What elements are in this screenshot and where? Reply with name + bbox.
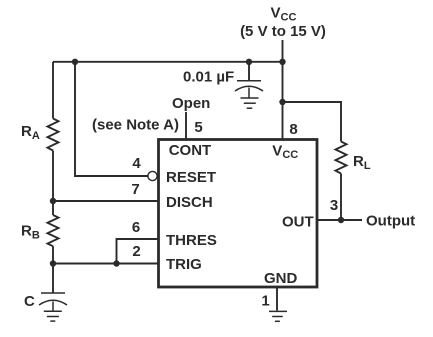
svg-text:Output: Output (366, 213, 415, 230)
node junction dot DISCH (50, 198, 56, 204)
svg-text:(see Note A): (see Note A) (92, 117, 179, 134)
wire RA to DISCH node (52, 151, 54, 216)
svg-text:C: C (24, 293, 35, 310)
wire left rail upper (RA branch) (52, 62, 54, 119)
wire 0.01uF branch (248, 62, 250, 80)
svg-text:Open: Open (172, 95, 210, 112)
svg-text:6: 6 (132, 219, 140, 236)
wire RL branch from VCC node (283, 102, 342, 142)
node junction dot TRIG left (50, 260, 56, 266)
wire THRES branch pin 6 (117, 239, 159, 264)
svg-text:DISCH: DISCH (166, 194, 213, 211)
svg-text:4: 4 (132, 155, 141, 172)
svg-text:3: 3 (330, 197, 338, 214)
svg-text:5: 5 (194, 119, 202, 136)
svg-text:CONT: CONT (169, 142, 212, 159)
wire RL to OUT node (340, 174, 342, 221)
wire pin 5 CONT from Open (185, 112, 187, 139)
capacitor 0.01uF (235, 81, 263, 99)
wire OUT pin 3 (318, 219, 362, 221)
svg-text:7: 7 (131, 181, 139, 198)
svg-text:2: 2 (132, 243, 140, 260)
wire DISCH pin 7 (53, 200, 158, 202)
wire top rail (53, 61, 283, 63)
ground pin 1 (269, 311, 287, 321)
svg-text:8: 8 (289, 121, 297, 138)
svg-text:(5 V to 15 V): (5 V to 15 V) (240, 23, 326, 40)
wire VCC vertical pin 8 (282, 40, 284, 139)
svg-text:GND: GND (264, 270, 298, 287)
node junction dot OUT / Output (338, 217, 344, 223)
op-amp U1 555 timer box (159, 140, 318, 288)
node junction dot RL branch (279, 99, 285, 105)
svg-text:RESET: RESET (166, 169, 216, 186)
node junction dot 0.01uF (246, 59, 252, 65)
svg-text:1: 1 (261, 293, 269, 310)
svg-text:0.01 µF: 0.01 µF (183, 69, 234, 86)
node junction dot THRES branch (113, 260, 119, 266)
wire pin 1 GND (276, 287, 278, 311)
resistor RL (336, 142, 347, 174)
wire RB to TRIG node and capacitor C (52, 246, 54, 292)
RESET inverter bubble pin 4 (148, 171, 157, 180)
svg-text:THRES: THRES (166, 232, 217, 249)
ground under 0.01uF (241, 98, 259, 108)
svg-text:OUT: OUT (282, 214, 314, 231)
ground under C (44, 311, 62, 321)
capacitor C (39, 293, 67, 311)
wire RESET branch vertical (75, 62, 148, 176)
svg-text:TRIG: TRIG (166, 256, 202, 273)
resistor RA (48, 119, 59, 151)
node junction dot VCC rail (279, 59, 285, 65)
resistor RB (48, 215, 59, 246)
wire TRIG pin 2 (53, 263, 158, 265)
node junction dot top rail / RESET (72, 59, 78, 65)
